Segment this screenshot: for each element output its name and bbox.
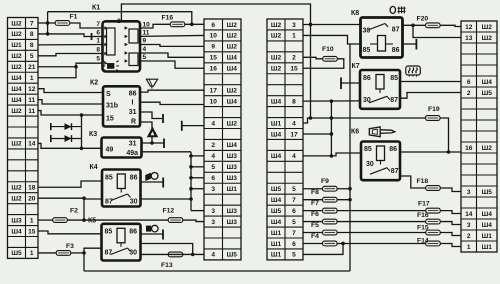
wire T1 Ш2/20 to K4 87 junction [38,197,84,199]
wire B2 stub row13 [191,155,204,157]
wire F7 line to F17 to T4 [303,211,461,214]
wire K2 I to T2 row8 [140,102,204,104]
svg-text:К1: К1 [92,5,100,12]
svg-text:11: 11 [28,97,35,104]
svg-text:Ш1: Ш1 [271,230,282,237]
wire K1 pin9 to T2 row3 [140,45,204,47]
svg-text:8: 8 [96,47,100,54]
svg-text:85: 85 [105,175,113,182]
node junction V2 row11 [330,132,334,136]
svg-text:Ш2: Ш2 [11,31,22,38]
node junction F3/ground [82,251,86,255]
svg-text:Ш2: Ш2 [11,53,22,60]
svg-text:4: 4 [211,252,215,259]
wire K1 pin4 to T2 row4 [140,53,204,57]
terminal bar T2-row10 terminal [181,121,183,131]
wire T1 Ш2/8 to K1 pin 6 [38,34,92,37]
svg-text:3: 3 [211,219,215,226]
node junction row2 bus [46,32,50,36]
diode VD1 [51,123,82,130]
svg-text:5: 5 [30,53,34,60]
terminal bar K8-86 terminal [415,39,417,50]
svg-text:Ш2: Ш2 [271,55,282,62]
wire K1 pin6 stub [92,36,103,38]
svg-text:Ш4: Ш4 [271,219,282,226]
svg-text:8: 8 [292,98,296,105]
wire K7 85 to T4 row6 [400,81,461,83]
diode VD2 [51,135,82,142]
svg-text:3: 3 [211,186,215,193]
svg-text:31: 31 [129,141,137,148]
wire T3 Ш2/3 to K8 30 [303,23,361,25]
svg-text:Ш5: Ш5 [482,189,493,196]
node junction V2 top [330,99,334,103]
svg-text:5: 5 [211,164,215,171]
svg-text:16: 16 [210,66,218,73]
node junction diode rail bottom [80,147,84,151]
svg-text:F1: F1 [70,14,78,21]
wire T1 Ш2/14 to K3 49 [38,143,102,148]
svg-text:1: 1 [467,244,471,251]
wire T1 Ш2/5 to K1 pin 8 [38,54,103,56]
connector table T1 (left) [8,18,39,259]
svg-text:86: 86 [392,47,400,54]
svg-text:86: 86 [129,91,137,98]
svg-text:1: 1 [30,75,34,82]
svg-text:6: 6 [96,30,100,37]
svg-text:6: 6 [292,241,296,248]
svg-text:86: 86 [389,146,397,153]
svg-text:F4: F4 [311,233,319,240]
wire K5 86 to terminal [141,233,163,235]
svg-text:4: 4 [211,120,215,127]
wire K2 31 to terminal [140,112,162,119]
svg-text:Ш2: Ш2 [227,33,238,40]
svg-text:4: 4 [292,153,296,160]
connector table T4 (right) [461,21,497,252]
svg-text:5: 5 [96,56,100,63]
fuse F9 [321,178,337,191]
wire B2 stub row14 [191,166,204,168]
wire F20 branch to T4 row2 [413,25,461,37]
svg-text:F2: F2 [70,208,78,215]
svg-text:85: 85 [363,47,371,54]
svg-text:F17: F17 [418,200,430,207]
svg-text:Ш3: Ш3 [227,164,238,171]
wire T3 Ш5/5 to F9 [303,188,350,190]
svg-text:Ш5: Ш5 [271,186,282,193]
wire K1 pin11 to T2 row2 [140,34,204,37]
svg-text:1: 1 [30,250,34,257]
svg-text:Ш4: Ш4 [482,222,493,229]
svg-text:12: 12 [28,86,36,93]
svg-text:F14: F14 [417,237,429,244]
node junction B2 row15 [189,176,193,180]
icon low beam headlamp [145,173,158,182]
svg-text:Ш1: Ш1 [271,120,282,127]
wire T1 Ш2/11 to K2 15 [38,111,103,115]
svg-text:86: 86 [129,229,137,236]
wire K2 R stub [140,122,152,143]
node junction line3/F4 [341,242,345,246]
relay K2 [90,80,140,127]
fuse F16 [162,15,185,27]
node junction F9/V3 [348,187,352,191]
fuse F16 [417,212,440,224]
fuse F1 [55,14,77,26]
svg-text:Ш1: Ш1 [482,244,493,251]
node junction lineA row1 [309,23,313,27]
svg-text:Ш2: Ш2 [11,185,22,192]
terminal bar K1 pin6 terminal [91,33,93,40]
svg-text:F7: F7 [311,200,319,207]
svg-text:К4: К4 [90,164,98,171]
terminal bar K4-86 terminal [162,178,164,188]
node junction F1 row1 [46,21,50,25]
svg-text:15: 15 [28,228,36,235]
svg-text:F3: F3 [66,243,74,250]
icon rear window defroster [390,6,406,13]
svg-text:F6: F6 [311,211,319,218]
svg-text:F5: F5 [311,222,319,229]
node junction B2 row14 [189,165,193,169]
wire F4 line to F14 to T4 [303,243,461,246]
node junction F8/V3 [348,198,352,202]
wire K6 86 to T4 row12 [400,151,461,153]
wire diode rail [81,115,83,148]
wire B2 corner into row18 [191,210,204,212]
wire T1 Ш2/18 to K4 85 [38,181,102,187]
svg-text:49a: 49a [126,150,138,157]
wire K5 to F13 to T2 row22 [141,253,205,255]
svg-text:3: 3 [467,222,471,229]
wire vertical bus at x=47.6 [47,12,49,34]
svg-text:8: 8 [30,31,34,38]
node junction K2R/K331 [150,141,154,145]
svg-text:30: 30 [363,28,371,35]
svg-text:10: 10 [210,33,218,40]
svg-text:F19: F19 [428,106,440,113]
svg-text:Ш2: Ш2 [11,20,22,27]
wire K1 pin5r to T2 row5 [140,61,204,68]
svg-text:К3: К3 [89,131,97,138]
wire F1 line to K1 pin 7 [48,23,103,28]
icon ignition key [369,127,395,137]
node junction F19/K6-86 [447,150,451,154]
fuse F4 [311,233,337,246]
svg-text:7: 7 [292,197,296,204]
svg-text:30: 30 [366,161,374,168]
svg-text:Ш5: Ш5 [11,250,22,257]
relay K7 [352,63,401,109]
icon windscreen wiper [146,79,157,88]
fuse F14 [417,237,440,246]
wire F6 line to F16b to T4 [303,222,461,225]
svg-text:17: 17 [290,131,298,138]
svg-text:Ш1: Ш1 [271,241,282,248]
fuse F19 [426,106,441,120]
svg-text:85: 85 [390,75,398,82]
svg-text:5: 5 [143,54,147,61]
wire line A: K1 pin2 top feed [121,4,310,118]
svg-text:6: 6 [292,208,296,215]
svg-text:15: 15 [290,66,298,73]
terminal bar K7-86 terminal [340,78,342,90]
wire T3 Ш4/17 stub [303,133,331,135]
svg-text:Ш2: Ш2 [11,141,22,148]
svg-text:Ш4: Ш4 [227,98,238,105]
wire T3 Ш1/5 loop to F4 line [303,243,343,254]
wire F3 line to ground rail [71,252,85,254]
svg-text:Ш3: Ш3 [227,208,238,215]
svg-text:Ш3: Ш3 [11,217,22,224]
svg-text:13: 13 [465,35,473,42]
svg-text:Ш3: Ш3 [227,175,238,182]
node junction B2 row13 [189,154,193,158]
fuse F15 [417,224,440,235]
svg-text:87: 87 [105,250,113,257]
icon heater [406,66,421,77]
wire line B +: T1 row1 junction to F16 corner [48,12,192,25]
wire T3 Ш4/8 to K7 30 [303,100,360,102]
svg-text:F10: F10 [322,46,334,53]
svg-text:85: 85 [105,229,113,236]
svg-text:Ш4: Ш4 [11,97,22,104]
svg-text:2: 2 [467,233,471,240]
svg-text:4: 4 [143,46,147,53]
svg-text:К6: К6 [351,129,359,136]
svg-text:Ш4: Ш4 [271,98,282,105]
wire K8 86 to terminal [403,43,417,45]
svg-text:1: 1 [96,38,100,45]
svg-text:Ш4: Ш4 [227,55,238,62]
svg-text:6: 6 [211,22,215,29]
svg-text:F20: F20 [417,15,429,22]
svg-text:9: 9 [143,38,147,45]
svg-text:Ш4: Ш4 [482,79,493,86]
svg-text:5: 5 [292,252,296,259]
svg-text:Ш4: Ш4 [227,66,238,73]
wire B2 stub row15 [191,177,204,179]
svg-text:Ш5: Ш5 [271,208,282,215]
svg-text:Ш2: Ш2 [482,145,493,152]
svg-text:I: I [132,100,134,107]
wire K8 87 to F20 to T4 row1 [403,24,426,26]
node junction L1/V2 [330,116,334,120]
fuse F17 [418,200,440,213]
node junction diode rail top [80,113,84,117]
fuse F3 [56,243,74,255]
fuse F20 [417,15,441,27]
wire K2 86 to T2 row7 [140,90,204,92]
terminal bar K3-31 terminal [163,139,165,149]
svg-text:4: 4 [211,153,215,160]
wire K6 87 to F18 to T4 row16 [400,176,461,192]
svg-text:F13: F13 [161,262,173,269]
svg-text:F15: F15 [417,224,429,231]
svg-text:Ш2: Ш2 [227,87,238,94]
relay K3 [89,131,142,158]
fuse F12 [163,208,183,223]
svg-text:87: 87 [390,97,398,104]
node junction row17 [82,196,86,200]
svg-text:Ш4: Ш4 [482,211,493,218]
node junction F20 branch [411,24,415,28]
wire K4 86 to terminal [141,181,163,183]
svg-text:2: 2 [117,18,121,25]
wire K5 30 jog [141,244,193,255]
wire T1 Ш5/1 to F3 [38,252,57,254]
svg-text:2: 2 [292,55,296,62]
wire F2 line to F12 [67,220,204,222]
svg-text:3: 3 [292,22,296,29]
svg-text:Ш4: Ш4 [271,153,282,160]
svg-text:Ш3: Ш3 [227,219,238,226]
svg-text:Ш2: Ш2 [482,35,493,42]
svg-text:86: 86 [363,75,371,82]
node junction V2 bottom [330,154,334,158]
svg-text:2: 2 [467,90,471,97]
relay K4 [90,164,141,207]
svg-text:Ш4: Ш4 [271,131,282,138]
wire K1 pin10 to F16 line [140,24,170,28]
svg-text:Ш4: Ш4 [227,142,238,149]
svg-text:К5: К5 [88,218,96,225]
svg-text:86: 86 [130,175,138,182]
wire V2 vertical [330,101,332,156]
svg-text:Ш4: Ш4 [271,197,282,204]
svg-text:8: 8 [30,42,34,49]
svg-text:12: 12 [465,24,473,31]
svg-text:Ш2: Ш2 [271,22,282,29]
svg-text:11: 11 [28,108,35,115]
svg-text:87: 87 [391,168,399,175]
wire F5 line to F15 to T4 [303,233,461,236]
svg-text:Ш4: Ш4 [11,86,22,93]
svg-text:Ш2: Ш2 [11,195,22,202]
wire bus B2 vertical [190,152,192,211]
wire T3 Ш2/1 to K8 85 [303,35,361,44]
terminal bar K5-86 terminal [162,230,164,240]
svg-text:Ш2: Ш2 [482,24,493,31]
svg-text:5: 5 [292,219,296,226]
wire T1 Ш2/21 to pin5 rail [38,66,76,68]
svg-text:К8: К8 [351,10,359,17]
wire T1 Ш3/1 to F2 [38,219,53,221]
svg-text:Ш5: Ш5 [482,90,493,97]
svg-text:15: 15 [106,116,114,123]
wire T1 Ш1/8 to K1 pin 1 [38,44,103,46]
svg-text:Ш2: Ш2 [227,120,238,127]
relay K6 [351,129,400,181]
svg-text:Ш2: Ш2 [11,64,22,71]
wire K7 86 wire [341,82,360,84]
svg-text:F9: F9 [321,178,329,185]
relay K8 [351,10,403,58]
node junction lineB/F16 [190,23,194,27]
svg-text:Ш2: Ш2 [11,108,22,115]
svg-text:F8: F8 [311,189,319,196]
wire B2 stub row16 [191,188,204,190]
wire V3 vertical [349,44,351,271]
svg-text:Ш1: Ш1 [271,252,282,259]
svg-text:3: 3 [467,189,471,196]
svg-text:Ш4: Ш4 [11,75,22,82]
svg-text:Ш1: Ш1 [482,233,493,240]
svg-text:F12: F12 [163,208,175,215]
node junction K5-30/F13 [191,253,195,257]
terminal bar K2-31 terminal [162,114,164,123]
wire K3 49a to bus B2 [142,151,192,153]
wire T3 Ш4/7 to F8 [303,199,350,201]
svg-text:F16: F16 [417,212,429,219]
wire T1 Ш4/1 to K1 pin 5 [38,63,103,78]
connector table T3 (mid-right) [267,19,303,260]
svg-text:15: 15 [210,55,218,62]
svg-text:Ш2: Ш2 [227,44,238,51]
wire F16 to T2 row1 [185,23,204,25]
wire T3 Ш2/2 through F10 loop to Ш2/15 [303,57,344,68]
fuse F5 [311,222,337,235]
svg-text:R: R [131,119,136,126]
svg-text:S: S [106,91,111,98]
svg-text:Ш4: Ш4 [11,228,22,235]
wire K3 31 to terminal [142,142,164,144]
svg-text:31b: 31b [106,103,118,110]
fuse F13 [161,252,183,269]
wire T3 Ш4/4 to K6 85 [303,153,361,156]
fuse F8 [311,189,337,202]
svg-text:1: 1 [30,217,34,224]
svg-text:F16: F16 [162,15,174,22]
fuse F7 [311,200,337,213]
node junction B2 K4-30 [189,197,193,201]
wire T3 Ш1/4 to F19 line L1 [303,118,425,123]
icon hazard triangle [147,127,158,138]
svg-text:Ш3: Ш3 [227,153,238,160]
svg-text:18: 18 [28,185,36,192]
wire T1 Ш4/15 to K5 85 [38,231,102,234]
svg-text:Ш1: Ш1 [227,186,238,193]
svg-text:К2: К2 [90,80,98,87]
wire K4 87 to F2 junction [84,199,102,220]
svg-text:17: 17 [210,87,218,94]
node junction row5/row6 rail [74,65,78,69]
svg-text:30: 30 [130,199,138,206]
wire K5 87 to ground rail [84,248,102,271]
svg-text:49: 49 [106,147,114,154]
icon high beam headlamp [146,225,158,232]
svg-text:7: 7 [292,230,296,237]
svg-text:31: 31 [129,109,137,116]
svg-text:2: 2 [211,142,215,149]
svg-text:14: 14 [28,141,36,148]
svg-text:16: 16 [465,145,473,152]
wire K4 30 to bus B2 [141,198,192,200]
svg-text:6: 6 [211,175,215,182]
svg-text:4: 4 [292,120,296,127]
wire ground rail bottom [84,270,350,272]
svg-text:87: 87 [105,199,113,206]
svg-text:10: 10 [143,21,151,28]
svg-text:20: 20 [28,195,36,202]
wire x84 vertical [83,197,85,200]
wire terminal to T2 row10 [182,125,204,127]
svg-text:Ш2: Ш2 [227,22,238,29]
svg-text:10: 10 [210,98,218,105]
svg-text:Ш1: Ш1 [11,42,22,49]
svg-text:Ш2: Ш2 [271,33,282,40]
